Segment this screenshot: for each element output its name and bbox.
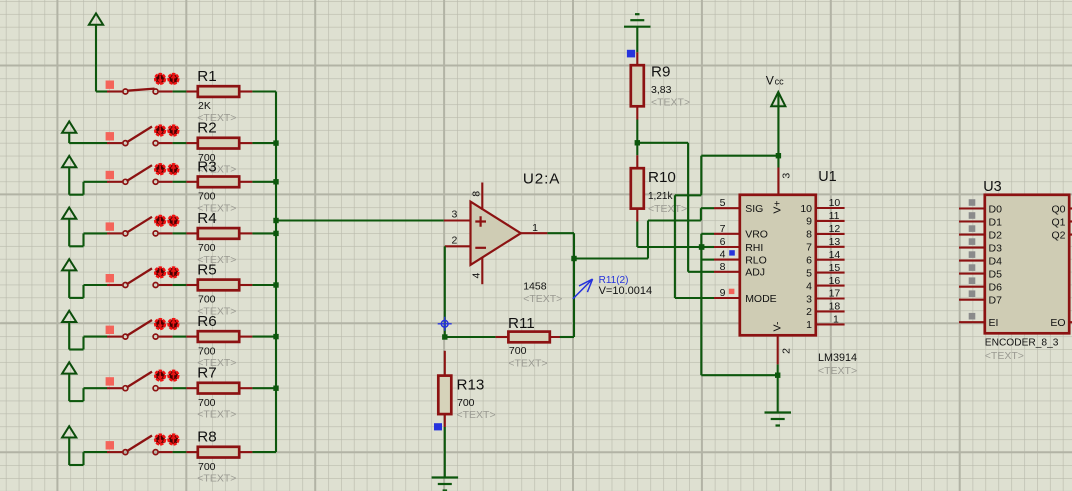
svg-text:R3: R3 xyxy=(197,158,216,175)
svg-text:Q2: Q2 xyxy=(1051,229,1065,241)
svg-text:9: 9 xyxy=(806,216,812,228)
svg-text:R2: R2 xyxy=(197,120,216,137)
svg-text:LM3914: LM3914 xyxy=(818,352,857,364)
svg-text:6: 6 xyxy=(806,255,812,267)
svg-text:EO: EO xyxy=(1050,317,1065,329)
svg-text:1: 1 xyxy=(833,314,839,326)
svg-text:<TEXT>: <TEXT> xyxy=(523,293,562,305)
svg-text:700: 700 xyxy=(198,294,216,306)
svg-text:2: 2 xyxy=(451,235,457,247)
svg-text:VRO: VRO xyxy=(745,229,768,241)
svg-text:1: 1 xyxy=(532,222,538,234)
svg-text:14: 14 xyxy=(829,249,841,261)
svg-text:R8: R8 xyxy=(197,429,216,446)
svg-text:<TEXT>: <TEXT> xyxy=(197,409,236,421)
svg-text:1: 1 xyxy=(806,319,812,331)
svg-text:8: 8 xyxy=(720,261,726,273)
svg-text:6: 6 xyxy=(720,236,726,248)
svg-text:3: 3 xyxy=(451,209,457,221)
svg-text:17: 17 xyxy=(829,288,841,300)
svg-text:R6: R6 xyxy=(197,313,216,330)
svg-text:D2: D2 xyxy=(989,229,1003,241)
svg-text:R13: R13 xyxy=(457,377,485,394)
svg-text:700: 700 xyxy=(198,242,216,254)
svg-text:4: 4 xyxy=(806,280,812,292)
svg-text:U3: U3 xyxy=(983,179,1001,195)
svg-text:2: 2 xyxy=(780,348,792,354)
svg-text:<TEXT>: <TEXT> xyxy=(651,97,690,109)
svg-text:SIG: SIG xyxy=(745,203,763,215)
svg-text:D0: D0 xyxy=(989,203,1003,215)
svg-text:V: V xyxy=(766,73,775,87)
svg-text:700: 700 xyxy=(198,397,216,409)
svg-text:R4: R4 xyxy=(197,210,216,227)
svg-text:R5: R5 xyxy=(197,262,216,279)
svg-text:10: 10 xyxy=(800,203,812,215)
svg-text:MODE: MODE xyxy=(745,293,777,305)
svg-text:5: 5 xyxy=(806,267,812,279)
svg-text:7: 7 xyxy=(720,223,726,235)
svg-text:5: 5 xyxy=(720,197,726,209)
svg-text:700: 700 xyxy=(509,345,527,357)
svg-text:700: 700 xyxy=(198,191,216,203)
svg-text:1,21k: 1,21k xyxy=(648,191,673,202)
svg-text:<TEXT>: <TEXT> xyxy=(508,357,547,369)
svg-text:R11: R11 xyxy=(508,315,535,332)
svg-text:16: 16 xyxy=(829,275,841,287)
svg-text:R10: R10 xyxy=(648,169,676,186)
svg-text:RHI: RHI xyxy=(745,242,763,254)
svg-text:<TEXT>: <TEXT> xyxy=(985,350,1024,362)
svg-text:3: 3 xyxy=(781,173,793,179)
svg-text:D3: D3 xyxy=(989,242,1003,254)
svg-text:<TEXT>: <TEXT> xyxy=(197,473,236,485)
svg-text:3,83: 3,83 xyxy=(651,84,672,96)
svg-text:<TEXT>: <TEXT> xyxy=(648,203,687,215)
svg-text:8: 8 xyxy=(806,229,812,241)
svg-text:10: 10 xyxy=(829,197,841,209)
svg-text:ENCODER_8_3: ENCODER_8_3 xyxy=(985,337,1059,348)
svg-text:9: 9 xyxy=(720,287,726,299)
svg-text:D5: D5 xyxy=(989,268,1003,280)
svg-text:13: 13 xyxy=(829,236,841,248)
svg-text:D4: D4 xyxy=(989,255,1003,267)
svg-text:R9: R9 xyxy=(651,64,670,81)
svg-text:U1: U1 xyxy=(818,169,836,185)
svg-text:ADJ: ADJ xyxy=(745,267,765,279)
svg-text:Q1: Q1 xyxy=(1051,216,1065,228)
svg-text:3: 3 xyxy=(806,293,812,305)
svg-text:11: 11 xyxy=(829,210,840,222)
svg-text:D7: D7 xyxy=(989,295,1003,307)
svg-text:1458: 1458 xyxy=(523,281,547,293)
svg-text:<TEXT>: <TEXT> xyxy=(818,365,857,377)
svg-text:V+: V+ xyxy=(772,200,784,213)
svg-text:U2:A: U2:A xyxy=(523,171,560,188)
svg-text:700: 700 xyxy=(457,397,475,409)
svg-text:R7: R7 xyxy=(197,365,216,382)
svg-text:V=10.0014: V=10.0014 xyxy=(599,285,653,297)
svg-text:D1: D1 xyxy=(989,216,1003,228)
svg-text:<TEXT>: <TEXT> xyxy=(457,409,496,421)
svg-text:4: 4 xyxy=(471,273,483,279)
svg-text:RLO: RLO xyxy=(745,254,767,266)
svg-text:700: 700 xyxy=(198,345,216,357)
svg-text:7: 7 xyxy=(806,242,812,254)
svg-text:V-: V- xyxy=(772,321,784,331)
svg-text:Q0: Q0 xyxy=(1051,203,1065,215)
svg-text:8: 8 xyxy=(471,191,483,197)
svg-text:700: 700 xyxy=(198,461,216,473)
svg-text:4: 4 xyxy=(720,249,726,261)
svg-text:R1: R1 xyxy=(197,68,216,85)
svg-text:12: 12 xyxy=(829,223,841,235)
svg-text:15: 15 xyxy=(829,262,841,274)
svg-text:EI: EI xyxy=(989,317,999,329)
svg-text:2: 2 xyxy=(806,306,812,318)
svg-text:2K: 2K xyxy=(198,100,211,112)
svg-text:18: 18 xyxy=(829,301,841,313)
svg-text:cc: cc xyxy=(775,77,785,87)
svg-text:D6: D6 xyxy=(989,282,1003,294)
